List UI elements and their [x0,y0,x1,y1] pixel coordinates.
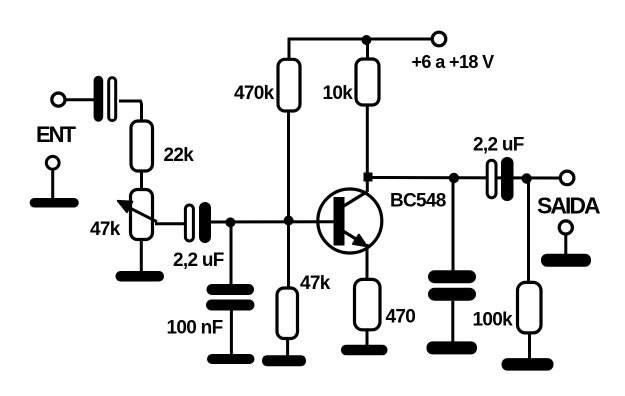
wire collector to output [367,176,560,180]
ground 470 [341,345,388,356]
wire 470 to ground [366,330,369,346]
svg-text:SAIDA: SAIDA [537,193,600,219]
resistor 100k [518,282,542,333]
wire output node to C4 [452,178,455,272]
ground C3 [207,354,255,364]
capacitor C3 100 nF [206,284,255,311]
wire 10k bottom lead [366,103,369,176]
svg-text:100k: 100k [473,310,514,331]
potentiometer wiper arrow [118,201,157,222]
wire C4 to ground [451,301,454,343]
capacitor C5 2,2 uF output [487,157,513,201]
wire 470k top lead [288,39,291,61]
wire 47k lower to ground [286,339,289,357]
svg-text:47k: 47k [300,273,331,294]
wire output node to 100k [527,178,530,284]
svg-text:2,2 uF: 2,2 uF [173,250,224,271]
wire 10k top lead [366,39,369,61]
wire C3 to ground [230,310,233,355]
capacitor C4 [428,270,476,301]
resistor 47k lower [277,288,298,339]
wire input to C1 [66,98,94,101]
svg-text:2,2 uF: 2,2 uF [473,135,524,156]
svg-text:10k: 10k [323,83,354,104]
terminal ENT ground [46,156,59,169]
ground C4 [427,341,478,354]
svg-text:ENT: ENT [36,122,77,147]
svg-text:47k: 47k [90,219,121,240]
ground ENT [30,198,79,208]
ground potentiometer [116,271,165,282]
junction output node right [521,173,531,183]
wire C2 to transistor base [211,220,335,223]
capacitor C1 input electrolytic [94,76,116,122]
terminal output [560,171,574,185]
svg-text:+6 a +18 V: +6 a +18 V [412,52,495,72]
wire collector vertical [366,176,369,192]
terminal +V [432,32,446,46]
svg-text:470k: 470k [234,83,275,104]
ground 100k [502,358,554,371]
svg-text:BC548: BC548 [390,191,446,212]
wire potentiometer bottom to ground [140,240,143,273]
terminal SAIDA ground [559,221,572,234]
potentiometer 47k body [131,190,153,240]
ground SAIDA [541,254,591,267]
resistor 22k [131,121,153,171]
svg-text:100 nF: 100 nF [167,318,223,339]
svg-text:22k: 22k [164,145,195,166]
transistor Q1 BC548 [318,189,382,253]
junction base node divider [284,216,294,226]
wire emitter to 470 [366,244,369,281]
resistor 470 [355,279,381,329]
svg-text:470: 470 [386,307,416,328]
wire base node to C3 [230,222,233,286]
ground 47k lower [262,355,306,366]
wire wiper to C2 [155,222,185,225]
resistor 470k [278,59,300,111]
wire 100k to ground [528,333,531,359]
wire 22k to potentiometer [140,171,143,191]
wire supply rail [288,38,432,41]
capacitor C2 2,2 uF coupling [185,202,211,243]
junction base node C3 [225,217,235,227]
terminal input [52,93,65,106]
junction collector [364,173,373,182]
resistor 10k [356,59,379,105]
wire SAIDA terminal to ground [564,235,567,256]
wire 470k bottom lead to base node and 47k [287,109,290,292]
wire C1 to 22k [119,101,142,122]
wire ENT terminal to ground [51,170,54,200]
junction output node left [449,173,459,183]
junction supply rail [361,35,371,45]
